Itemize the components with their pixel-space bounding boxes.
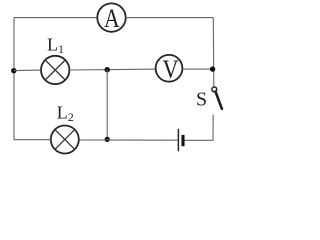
battery negative plate (short thick) xyxy=(181,135,184,146)
wire middle vertical xyxy=(106,70,108,140)
node junction middle (bottom row) xyxy=(105,137,110,142)
lamp L2 xyxy=(51,126,79,154)
svg-text:S: S xyxy=(196,89,207,111)
wire row2 right xyxy=(182,68,213,70)
node junction left (row 2) xyxy=(11,68,16,73)
voltmeter V xyxy=(156,55,183,85)
lamp L1 xyxy=(41,56,69,84)
svg-text:L2: L2 xyxy=(57,103,74,125)
ammeter A xyxy=(97,3,125,33)
wire top-left segment xyxy=(14,17,97,19)
wire bottom left segment xyxy=(14,139,51,141)
svg-text:L1: L1 xyxy=(47,35,64,57)
wire row2 middle xyxy=(69,68,155,71)
node junction right (row 2) xyxy=(210,66,215,71)
wire row2 left xyxy=(14,69,41,72)
wire bottom middle segment xyxy=(79,139,178,141)
wire left vertical xyxy=(13,18,15,140)
battery positive plate (long thin) xyxy=(177,129,179,152)
wire top-right segment xyxy=(126,17,214,19)
wire right vertical upper xyxy=(212,18,215,88)
svg-text:V: V xyxy=(163,55,179,84)
switch S blade xyxy=(216,92,222,109)
wire bottom right segment xyxy=(185,139,213,141)
node junction middle (row 2) xyxy=(105,67,110,72)
svg-text:A: A xyxy=(104,4,120,34)
switch S pivot xyxy=(212,87,217,92)
wire right vertical lower xyxy=(212,115,214,141)
